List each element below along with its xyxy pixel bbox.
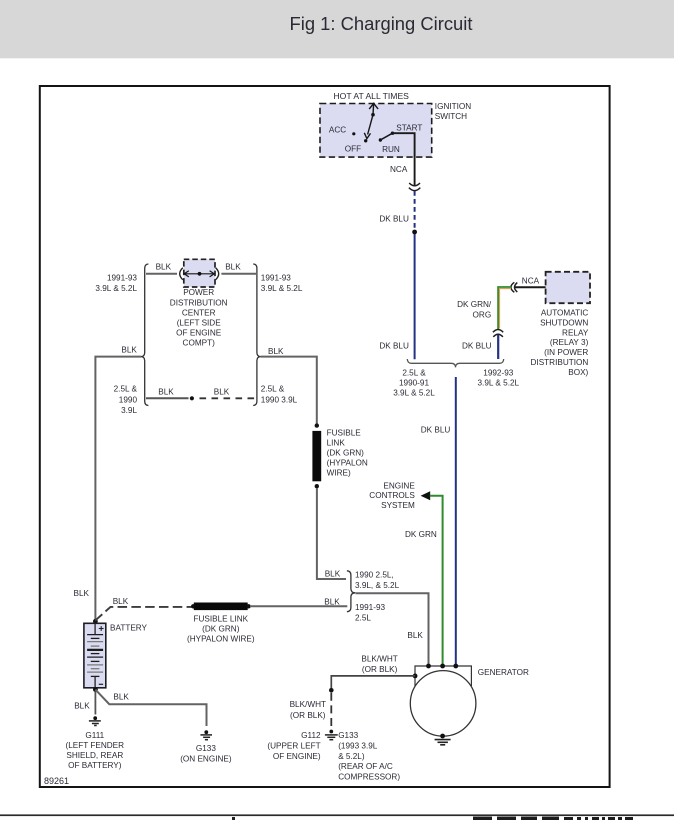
ignition switch box [320, 104, 432, 158]
svg-text:COMPRESSOR): COMPRESSOR) [338, 772, 400, 781]
junction dot lower row [190, 396, 194, 400]
svg-text:G133: G133 [338, 731, 358, 740]
svg-text:1992-93: 1992-93 [483, 369, 513, 378]
label BLK/WHT (OR BLK) lower [290, 700, 326, 720]
svg-text:BLK: BLK [225, 262, 241, 271]
svg-text:SYSTEM: SYSTEM [381, 501, 415, 510]
wire DK BLU short to merge brace [497, 335, 499, 359]
svg-text:BLK: BLK [268, 347, 284, 356]
svg-text:3.9L & 5.2L: 3.9L & 5.2L [393, 389, 435, 398]
wire BLK from left brace down to battery [95, 357, 141, 620]
svg-text:1991-93: 1991-93 [261, 273, 291, 282]
svg-text:3.9L & 5.2L: 3.9L & 5.2L [261, 284, 303, 293]
wire DK GRN to generator [430, 496, 443, 665]
svg-text:DK GRN/: DK GRN/ [457, 300, 492, 309]
svg-text:BLK: BLK [407, 631, 423, 640]
connector ) right of PDC [216, 268, 219, 280]
svg-text:OF ENGINE: OF ENGINE [176, 329, 222, 338]
svg-text:BLK: BLK [121, 346, 137, 355]
contact dot RUN [379, 138, 382, 141]
svg-text:BLK/WHT: BLK/WHT [290, 700, 326, 709]
svg-text:BOX): BOX) [568, 368, 588, 377]
svg-text:G133: G133 [196, 744, 216, 753]
battery minus sign [99, 683, 103, 685]
svg-text:1990 2.5L,: 1990 2.5L, [355, 570, 394, 579]
label G133 rear caption [338, 731, 400, 781]
svg-text:1991-93: 1991-93 [355, 603, 385, 612]
svg-text:NCA: NCA [390, 165, 408, 174]
svg-text:HOT AT ALL TIMES: HOT AT ALL TIMES [333, 91, 409, 101]
merge brace for DK BLU wires [407, 359, 503, 367]
diagram frame [40, 86, 610, 787]
svg-text:89261: 89261 [44, 776, 69, 786]
contact dot ACC [352, 132, 355, 135]
wire BLK PDC to brace-right [221, 273, 256, 275]
PDC box [184, 259, 215, 287]
bottom toolbar strip [0, 814, 674, 820]
label ENGINE CONTROLS SYSTEM [369, 481, 415, 510]
wire BLK dashed lower row [200, 397, 257, 399]
wire BLK/WHT dashed to G112 [330, 693, 332, 728]
switch feed arrow mid dot [371, 113, 375, 117]
svg-text:(LEFT FENDER: (LEFT FENDER [66, 741, 125, 750]
svg-text:2.5L: 2.5L [355, 614, 371, 623]
svg-text:Fig 1: Charging Circuit: Fig 1: Charging Circuit [290, 13, 473, 34]
svg-text:BATTERY: BATTERY [110, 623, 148, 632]
svg-text:POWER: POWER [183, 288, 214, 297]
terminal dot DK GRN [440, 664, 445, 669]
svg-text:DK BLU: DK BLU [421, 425, 451, 434]
svg-text:BLK/WHT: BLK/WHT [361, 655, 397, 664]
svg-text:ACC: ACC [329, 125, 346, 134]
connector green to blue (arrow up into cup) [493, 330, 503, 337]
label G133 engine caption [180, 744, 232, 763]
battery plates [87, 635, 103, 677]
generator circle [410, 671, 476, 737]
wire battery to G111 [94, 692, 96, 715]
ground G133 engine [200, 730, 212, 739]
svg-text:BLK: BLK [156, 262, 172, 271]
svg-text:RELAY: RELAY [562, 328, 589, 337]
junction dot battery top [93, 619, 98, 624]
svg-text:WIRE): WIRE) [327, 468, 351, 477]
PDC internal node dot [198, 272, 202, 276]
switch feed arrow up [369, 103, 378, 114]
junction dot on BLK/WHT wire [329, 688, 334, 693]
battery bottom stub [94, 676, 96, 687]
wire BLK/WHT from generator [331, 676, 415, 689]
header bar [0, 0, 674, 58]
svg-text:NCA: NCA [522, 276, 540, 285]
svg-text:OFF: OFF [345, 145, 361, 154]
wire START to NCA connector [393, 133, 415, 185]
wire NCA from relay [515, 286, 546, 288]
label G112 caption [267, 731, 321, 761]
svg-text:(UPPER LEFT: (UPPER LEFT [267, 742, 320, 751]
svg-text:BLK: BLK [325, 570, 341, 579]
terminal dot DK BLU [453, 664, 458, 669]
svg-text:SHUTDOWN: SHUTDOWN [540, 318, 588, 327]
svg-text:3.9L, & 5.2L: 3.9L, & 5.2L [355, 581, 400, 590]
label 1991-93 2.5L [355, 603, 385, 623]
switch arm RUN to START [380, 133, 392, 140]
svg-text:FUSIBLE: FUSIBLE [327, 428, 362, 437]
battery body [84, 623, 106, 688]
svg-text:ENGINE: ENGINE [383, 481, 415, 490]
svg-text:OF ENGINE): OF ENGINE) [273, 752, 321, 761]
label FUSIBLE LINK caption [327, 428, 368, 477]
junction dot below fusible link [315, 484, 319, 488]
dot left of horizontal fusible link [191, 604, 195, 608]
ground G112 [325, 730, 338, 740]
wire DK BLU solid down to merge brace [414, 234, 416, 359]
wire BLK brace-left to PDC [146, 273, 177, 275]
wire from fusible link down to small brace [317, 488, 346, 579]
generator terminal housing [415, 666, 471, 686]
terminal dot BLK/WHT side [413, 674, 418, 679]
svg-text:GENERATOR: GENERATOR [478, 668, 529, 677]
brace left of PDC group [141, 264, 148, 406]
svg-text:(DK GRN): (DK GRN) [202, 625, 240, 634]
svg-text:DK BLU: DK BLU [462, 341, 492, 350]
svg-text:LINK: LINK [327, 438, 346, 447]
svg-text:CONTROLS: CONTROLS [369, 491, 415, 500]
svg-text:OF BATTERY): OF BATTERY) [68, 761, 122, 770]
svg-text:DISTRIBUTION: DISTRIBUTION [531, 358, 589, 367]
fusible link (vertical) [312, 431, 321, 481]
contact dot OFF [364, 139, 367, 142]
svg-text:1991-93: 1991-93 [107, 273, 137, 282]
svg-text:(RELAY 3): (RELAY 3) [550, 338, 589, 347]
svg-text:(LEFT SIDE: (LEFT SIDE [177, 319, 222, 328]
svg-text:START: START [396, 124, 422, 133]
svg-text:(HYPALON: (HYPALON [327, 458, 368, 467]
connector NCA (arrow into cup, pointing left) [511, 282, 517, 292]
svg-text:DISTRIBUTION: DISTRIBUTION [170, 298, 228, 307]
svg-text:& 5.2L): & 5.2L) [338, 752, 365, 761]
svg-text:COMPT): COMPT) [183, 339, 216, 348]
PDC caption [170, 288, 228, 348]
svg-text:AUTOMATIC: AUTOMATIC [541, 309, 589, 318]
wire merged BLK to generator [356, 593, 429, 665]
wire DK GRN/ORG from connector [498, 287, 511, 329]
battery top stub [94, 623, 96, 634]
fusible link (horizontal) [194, 603, 248, 611]
svg-text:(HYPALON WIRE): (HYPALON WIRE) [187, 635, 255, 644]
label G111 caption [66, 731, 125, 770]
label DK GRN/ORG [457, 300, 492, 320]
svg-text:2.5L &: 2.5L & [402, 369, 426, 378]
ASD relay box [546, 272, 590, 303]
label 2.5L 1990 3.9L right [261, 385, 298, 405]
wire DK BLU merged down to generator [455, 377, 457, 665]
contact dot START junction [391, 132, 394, 135]
svg-text:ORG: ORG [473, 310, 492, 319]
label BLK/WHT (OR BLK) upper [361, 655, 397, 674]
svg-text:BLK: BLK [324, 598, 340, 607]
battery plus sign [99, 626, 104, 631]
connector ( left of PDC [180, 268, 183, 280]
svg-text:(OR BLK): (OR BLK) [290, 711, 326, 720]
dot right of horizontal fusible link [246, 604, 250, 608]
label IGNITION SWITCH [435, 102, 471, 121]
svg-text:2.5L &: 2.5L & [261, 385, 285, 394]
junction dot above fusible link [315, 423, 319, 427]
svg-text:BLK: BLK [113, 597, 129, 606]
ground G111 [89, 716, 101, 725]
relay caption [531, 309, 589, 377]
svg-text:CENTER: CENTER [182, 308, 216, 317]
svg-text:3.9L: 3.9L [121, 406, 137, 415]
label 1991-93 3.9L 5.2L right [261, 273, 303, 293]
svg-text:RUN: RUN [382, 145, 400, 154]
svg-text:BLK: BLK [214, 387, 230, 396]
wire DK BLU dashed from connector [414, 191, 416, 230]
engine controls arrow [421, 491, 431, 500]
svg-text:SHIELD, REAR: SHIELD, REAR [66, 751, 123, 760]
generator ground [435, 734, 451, 745]
label 1990 2.5L 3.9L 5.2L [355, 570, 400, 590]
svg-text:IGNITION: IGNITION [435, 102, 471, 111]
wire battery to G133 engine [95, 690, 206, 726]
label 1991-93 3.9L 5.2L left [95, 273, 137, 293]
label 1992-93 under brace [478, 369, 520, 388]
svg-text:(ON ENGINE): (ON ENGINE) [180, 754, 232, 763]
wire BLK fusible link to merge brace [250, 605, 347, 607]
svg-text:(REAR OF A/C: (REAR OF A/C [338, 762, 393, 771]
svg-text:BLK: BLK [113, 692, 129, 701]
svg-text:(OR BLK): (OR BLK) [362, 665, 398, 674]
svg-text:SWITCH: SWITCH [435, 112, 467, 121]
svg-text:1990-91: 1990-91 [399, 379, 429, 388]
wire BLK from right brace to fusible link [261, 357, 317, 424]
svg-text:3.9L & 5.2L: 3.9L & 5.2L [478, 379, 520, 388]
svg-text:2.5L &: 2.5L & [114, 385, 138, 394]
junction dot battery bottom [93, 687, 98, 692]
svg-text:1990 3.9L: 1990 3.9L [261, 395, 298, 404]
svg-text:(DK GRN): (DK GRN) [327, 448, 365, 457]
svg-text:3.9L & 5.2L: 3.9L & 5.2L [95, 284, 137, 293]
wire BLK solid lower row [146, 397, 189, 399]
terminal dot BLK [426, 664, 431, 669]
svg-text:DK BLU: DK BLU [379, 341, 409, 350]
label 2.5L 1990 3.9L left [114, 385, 138, 416]
label FUSIBLE LINK caption horizontal [187, 615, 255, 644]
svg-text:1990: 1990 [119, 395, 138, 404]
orange trace on DK GRN/ORG [500, 289, 512, 329]
svg-text:BLK: BLK [158, 387, 174, 396]
connector NCA (arrow into cup) [409, 183, 420, 191]
svg-text:DK BLU: DK BLU [379, 215, 409, 224]
svg-text:FUSIBLE LINK: FUSIBLE LINK [193, 615, 248, 624]
merge brace right of fusible links [347, 571, 356, 612]
wire BLK dashed battery to fusible link [95, 607, 193, 621]
junction dot on DK BLU wire [412, 230, 417, 235]
svg-text:G111: G111 [85, 731, 104, 740]
switch wiper arrow down to OFF [364, 115, 373, 139]
svg-text:G112: G112 [301, 731, 321, 740]
svg-text:BLK: BLK [74, 589, 90, 598]
svg-text:(IN POWER: (IN POWER [544, 348, 588, 357]
PDC internal bus line with arrows [184, 271, 214, 277]
brace right of PDC group [253, 264, 260, 406]
svg-text:(1993 3.9L: (1993 3.9L [338, 742, 378, 751]
svg-text:DK GRN: DK GRN [405, 530, 437, 539]
label 2.5L 1990-91 under brace [393, 369, 435, 398]
svg-text:BLK: BLK [74, 702, 90, 711]
